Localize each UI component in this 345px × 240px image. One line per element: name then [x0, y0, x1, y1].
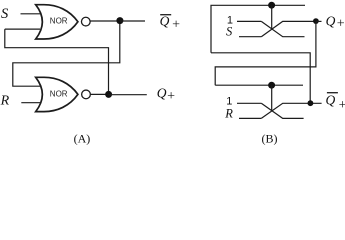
svg-text:(B): (B)	[262, 132, 278, 146]
svg-text:NOR: NOR	[50, 16, 68, 25]
wire S to gate U1	[21, 13, 41, 15]
wire node QN feedback path	[13, 21, 120, 87]
wire bottom feedback rail B (Q loop)	[215, 84, 303, 86]
svg-text:+: +	[336, 17, 345, 32]
crossover switch X2 lower branch	[261, 103, 321, 118]
node select top junction dot	[268, 2, 275, 9]
node Q junction dot	[105, 91, 112, 98]
label 1 constant top	[227, 15, 233, 27]
svg-text:Q: Q	[160, 14, 170, 29]
wire node QN to output label	[120, 20, 145, 22]
wire U2 bubble to node Q	[91, 93, 109, 95]
svg-text:+: +	[166, 89, 175, 104]
label NOR U1	[50, 16, 68, 25]
label R input B	[224, 106, 233, 120]
label Q+ output B	[326, 13, 345, 31]
svg-text:NOR: NOR	[50, 89, 68, 98]
wire Q+ stub to label	[316, 20, 322, 22]
label R input	[0, 94, 10, 109]
node select bottom junction dot	[268, 82, 275, 89]
node QN junction dot	[116, 17, 123, 24]
wire input 1 top crossover	[237, 20, 261, 22]
node Q+ junction dot	[313, 18, 319, 24]
svg-text:R: R	[0, 94, 10, 109]
wire Q+ feedback to bottom rail	[215, 21, 316, 85]
svg-text:+: +	[338, 98, 345, 113]
wire QN+ feedback riser to top rail	[211, 53, 310, 103]
svg-text:Q: Q	[326, 13, 336, 28]
label QN+ output	[160, 14, 181, 33]
NOR gate U1	[36, 5, 78, 39]
label S input B	[226, 24, 233, 38]
crossover switch X1 lower branch	[261, 21, 316, 36]
label S input	[1, 6, 9, 22]
wire R to gate U2	[21, 102, 40, 104]
crossover switch X2 upper branch	[261, 103, 303, 118]
svg-text:S: S	[1, 6, 9, 22]
wire select vertical into bottom crossover	[271, 85, 273, 111]
inversion bubble U2	[82, 90, 91, 99]
svg-text:+: +	[171, 17, 180, 32]
wire feedback Q to U1 lower input	[5, 28, 40, 30]
svg-text:R: R	[224, 106, 233, 120]
wire input R crossover	[239, 117, 261, 119]
wire select vertical into top crossover	[271, 5, 273, 29]
label QN+ output B	[326, 92, 345, 113]
wire node Q vertical left riser	[5, 29, 109, 94]
svg-text:S: S	[226, 24, 233, 38]
svg-text:(A): (A)	[74, 132, 91, 146]
crossover switch X1 upper branch	[261, 21, 304, 36]
label Q+ output	[157, 85, 176, 104]
wire U1 bubble to node QN	[91, 20, 120, 22]
wire top feedback rail B (QN loop)	[211, 5, 305, 53]
label NOR U2	[50, 89, 68, 98]
node QN+ junction dot	[308, 100, 314, 106]
caption (B)	[262, 132, 278, 146]
label 1 constant bottom	[226, 96, 232, 108]
wire input S crossover	[239, 36, 261, 38]
wire input 1 bottom crossover	[237, 102, 261, 104]
wire node Q to output label	[109, 94, 147, 96]
svg-text:Q: Q	[326, 92, 336, 107]
inversion bubble U1	[81, 17, 90, 26]
caption (A)	[74, 132, 91, 146]
NOR gate U2	[36, 77, 78, 111]
